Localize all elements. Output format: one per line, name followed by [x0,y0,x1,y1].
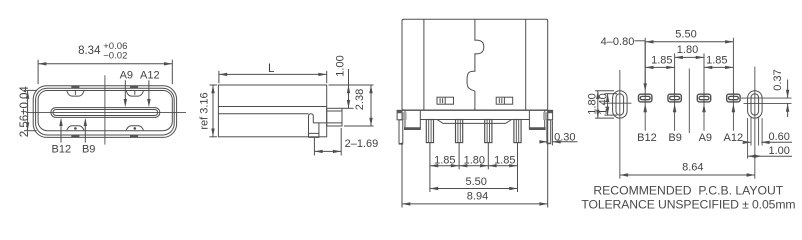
view 1: front view outer shell [33,86,176,138]
svg-text:B9: B9 [668,132,681,144]
view 2: rear contact tail [327,108,342,126]
view 3: pins [426,120,433,143]
view 2: shell/housing parting line [218,106,326,108]
view 1: shell rolled edge [36,88,175,135]
view 4: mounting slot right inner [751,94,759,115]
svg-text:A12: A12 [140,70,160,82]
view 3: shell outline [402,19,548,110]
view 1: bottom shell weld slot right [130,135,138,137]
view 4: mounting slot left inner [616,94,624,115]
svg-text:8.94: 8.94 [467,190,488,202]
view 1: top-left latch dimple [67,91,84,96]
svg-text:A9: A9 [699,132,712,144]
view 1: receptacle opening [38,91,172,131]
view 3: flange end section left [403,112,407,120]
svg-text:0.60: 0.60 [768,131,789,143]
svg-text:L: L [268,63,275,75]
view 3: flange end section right [543,112,547,120]
view 4: right slot centerline [754,67,756,179]
view 2: tail inner line [327,110,342,112]
view 4: left slot centerline [619,70,621,179]
svg-text:4–0.80: 4–0.80 [601,36,635,48]
view 3: right side wall line [525,19,527,110]
view 2: shell rear leg edge-on [309,114,314,138]
svg-text:8.34: 8.34 [78,45,101,57]
view 2: housing second line [218,113,308,115]
svg-text:2.56±0.04: 2.56±0.04 [19,86,31,138]
extension lines for 2.38 [329,84,374,86]
extension lines above pads [644,38,646,105]
view 1: tongue inner outline [53,110,158,116]
svg-text:B12: B12 [637,132,657,144]
extension lines below right slot [747,118,749,158]
svg-text:5.50: 5.50 [465,176,486,188]
view 3: side tab right [548,110,553,120]
svg-text:1.80: 1.80 [677,44,698,56]
view 4: pad leader lines with up arrows [644,105,646,131]
view 3: insulator bottom edge [437,120,512,124]
svg-text:TOLERANCE UNSPECIFIED ± 0.05mm: TOLERANCE UNSPECIFIED ± 0.05mm [581,198,795,212]
view 4: left slot horizontal centerline [603,102,632,104]
extension lines for 2.56 [24,89,37,91]
view 4: mounting slot left outer [613,91,628,118]
view 4: centerline between B9 and A9 [688,69,690,134]
view 1: bottom-right latch dimple [126,126,143,131]
extension lines for 2-1.69 [313,138,315,156]
view 3: shell leg right [547,120,551,143]
view 3: shell seam with interlock tabs [467,19,484,110]
view 4: mounting slot right outer [748,91,763,118]
svg-text:1.00: 1.00 [335,55,347,76]
svg-text:8.64: 8.64 [682,161,703,173]
view 3: flange window right [528,110,530,128]
svg-text:ref 3.16: ref 3.16 [199,92,211,129]
view 2: tail lower line [313,122,342,124]
svg-text:A9: A9 [120,70,133,82]
svg-text:2.38: 2.38 [354,89,366,110]
extension lines for 8.94 [401,143,403,208]
view 3: housing shelf right [529,127,546,130]
view 3: weld window right [496,97,513,104]
svg-text:0.37: 0.37 [772,69,784,90]
view 3: housing shelf left [404,127,421,130]
svg-text:1.85: 1.85 [706,54,727,66]
svg-text:B9: B9 [82,144,95,156]
svg-text:5.50: 5.50 [675,28,696,40]
view 1: top shell weld slot right [130,86,138,88]
view 1: bottom-left latch dimple [67,126,84,131]
extension lines for 8.34 [37,60,39,84]
view 1: tongue outer outline [51,108,160,118]
view 1: horizontal centerline [26,111,186,113]
svg-text:A12: A12 [724,132,744,144]
view 3: flange window left [404,110,406,128]
extension line for 1.00 [342,107,354,109]
svg-text:1.85: 1.85 [651,54,672,66]
view 1: vertical centerline [104,75,106,144]
view 2: side view body [218,85,326,137]
svg-text:1.85: 1.85 [494,154,515,166]
extension lines for pin pitch dims [429,143,431,192]
svg-text:1.00: 1.00 [768,145,789,157]
view 3: side tab left [397,110,402,120]
svg-text:B12: B12 [52,144,72,156]
svg-text:2–1.69: 2–1.69 [345,138,379,150]
view 2: leg foot step [309,133,319,137]
view 1: top-right latch dimple [126,91,143,96]
view 3: left side wall line [423,19,425,110]
view 3: mounting flange [402,109,548,111]
extension lines for ref 3.16 [210,84,218,86]
view 1: top shell weld slot left [71,86,79,88]
svg-text:−0.02: −0.02 [103,51,127,62]
svg-text:RECOMMENDED P.C.B. LAYOUT: RECOMMENDED P.C.B. LAYOUT [593,184,783,198]
extension line for 0.30 [551,121,553,146]
view 3: weld window left [437,97,454,104]
view 4: pads B12 B9 A9 A12 [639,94,652,102]
view 3: shell leg left [399,120,403,144]
extension lines for L [218,71,220,83]
view 1: bottom shell weld slot left [71,135,79,137]
